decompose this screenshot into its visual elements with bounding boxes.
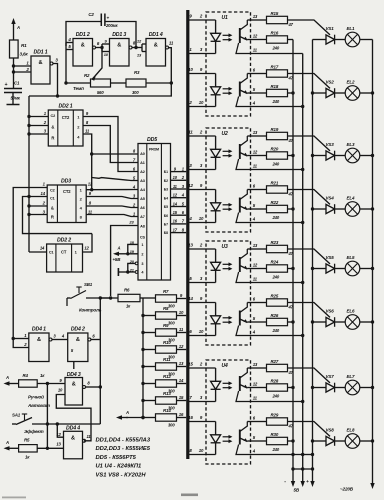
svg-text:R21: R21 [271, 180, 279, 185]
wire lamp to 220V rail channel 7 [360, 387, 373, 389]
svg-text:12: 12 [179, 344, 184, 349]
wire vertical DD4 outputs bus [99, 298, 101, 424]
svg-text:R30: R30 [271, 432, 279, 437]
svg-text:R9: R9 [163, 323, 169, 328]
lamp EL7 [345, 380, 360, 395]
wire DD1.3 out to DD1.4 inputs [132, 47, 142, 49]
wire DD4.3 out [86, 386, 101, 388]
wire anode bus to thyristor channel 5 [313, 268, 327, 270]
svg-text:EL4: EL4 [347, 196, 355, 201]
wire pin 4 to common bus channel 2 [251, 106, 303, 108]
svg-text:DD4 3: DD4 3 [67, 372, 81, 378]
wire R7 to bus tap 9 [177, 298, 187, 300]
wire pin to gate resistor channel 5 [251, 248, 267, 250]
thyristor VS7 [326, 383, 335, 392]
resistor R4 1k with point A arrow [7, 383, 11, 385]
svg-text:VS5: VS5 [326, 255, 335, 260]
svg-text:C2: C2 [50, 189, 55, 193]
svg-text:12: 12 [253, 263, 258, 268]
svg-text:C2: C2 [88, 12, 94, 17]
wire 240 to minus bus channel 1 [288, 39, 294, 41]
phototransistor channel 4 [239, 198, 241, 213]
wire DD3 pin3 [29, 214, 47, 216]
wire pin 11 to common bus channel 1 [251, 53, 303, 55]
gate DD4.2 [68, 333, 88, 362]
wire bus to LED anode channel 7 [189, 367, 216, 369]
resistor R29 47 channel 8 [267, 418, 288, 425]
svg-text:U4: U4 [222, 363, 228, 369]
svg-text:Эффект: Эффект [24, 428, 44, 434]
svg-text:VS1: VS1 [326, 26, 335, 31]
wire anode bus to thyristor channel 7 [313, 387, 327, 389]
wire pin to gate resistor channel 3 [251, 135, 267, 137]
svg-text:A: A [16, 25, 20, 30]
light arrows channel 4 [223, 204, 231, 206]
wire bus to LED anode channel 8 [189, 421, 216, 423]
supply arrow minus [292, 469, 294, 484]
wire pin 11 to common bus channel 3 [251, 169, 303, 171]
wire 240 to minus bus channel 4 [288, 208, 294, 210]
potentiometer R2 560 Temp [91, 79, 111, 87]
lamp EL8 [345, 434, 360, 449]
wire pin 4 to common bus channel 6 [251, 335, 303, 337]
svg-text:VS6: VS6 [326, 309, 335, 314]
svg-text:U1: U1 [222, 15, 228, 21]
optocoupler U3 dashed package [206, 241, 251, 345]
wire SB1 to R6 [86, 297, 118, 299]
svg-text:A3: A3 [140, 179, 145, 183]
resistor R1 3,6k [10, 40, 19, 58]
LED optocoupler input channel 8 [215, 422, 217, 435]
svg-text:R23: R23 [271, 240, 279, 245]
resistor R21 47 channel 4 [267, 186, 288, 193]
resistor R23 47 channel 5 [267, 245, 288, 252]
svg-text:R6: R6 [124, 288, 130, 293]
thyristor VS3 [326, 151, 335, 160]
wire rail counters common vertical [28, 96, 30, 252]
wire bus to LED anode channel 6 [189, 302, 216, 304]
phototransistor channel 1 [239, 28, 241, 43]
wire R10 to bus tap 12 [177, 349, 187, 351]
svg-text:DD2,DD3 - К555ИЕ5: DD2,DD3 - К555ИЕ5 [96, 446, 151, 452]
svg-text:+: + [306, 480, 309, 485]
resistor R25 47 channel 6 [267, 299, 288, 306]
svg-text:Б3: Б3 [164, 188, 168, 192]
svg-text:3,6к: 3,6к [20, 52, 29, 57]
phototransistor channel 7 [239, 376, 241, 391]
wire pin 11 to common bus channel 5 [251, 282, 303, 284]
wire DD3 out 12 to A4 [86, 189, 138, 191]
svg-text:10: 10 [199, 448, 204, 453]
wire bus to LED anode channel 4 [189, 189, 216, 191]
wire lamp to 220V rail channel 5 [360, 268, 373, 270]
svg-text:13: 13 [179, 361, 184, 366]
svg-text:200мк: 200мк [105, 23, 118, 28]
light arrows channel 5 [223, 263, 231, 265]
wire mode select vertical [46, 384, 48, 449]
LED optocoupler input channel 3 [215, 136, 217, 149]
wire R9 to bus tap 11 [177, 332, 187, 334]
gate DD1.3 [110, 39, 130, 67]
svg-text:R20: R20 [271, 146, 279, 151]
lamp EL4 [345, 202, 360, 217]
wire R3 right to DD1.4 node [146, 82, 171, 84]
wire C2 right to DD1.4 input node [105, 22, 136, 48]
svg-text:240: 240 [272, 447, 280, 452]
wire DD3 out 8 to A6 [86, 206, 138, 208]
lamp supply rail 220V [372, 40, 374, 472]
light arrows channel 6 [223, 317, 231, 319]
svg-text:R10: R10 [163, 340, 171, 345]
scan artifact bottom left [2, 497, 26, 499]
node dot pin2 [12, 70, 15, 73]
svg-text:13: 13 [253, 14, 258, 19]
svg-text:3: 3 [141, 262, 143, 266]
svg-text:R11: R11 [163, 357, 171, 362]
wire thyristor to lamp channel 2 [335, 92, 346, 94]
wire LED cathode to bus channel 3 [189, 169, 216, 171]
wire DD2.1 out 11 to A0 [83, 134, 92, 190]
svg-text:2: 2 [141, 252, 143, 256]
node A supply arrow top-left [13, 21, 15, 40]
svg-text:U1 U4 - К249КП1: U1 U4 - К249КП1 [96, 464, 142, 470]
svg-text:A1: A1 [140, 161, 145, 165]
svg-text:R5: R5 [24, 438, 30, 443]
svg-text:VS3: VS3 [326, 142, 335, 147]
light arrows channel 8 [223, 436, 231, 438]
svg-text:DD1 1: DD1 1 [34, 50, 48, 56]
LED optocoupler input channel 1 [215, 20, 217, 33]
wire lamp to 220V rail channel 3 [360, 155, 373, 157]
wire R4 to DD4.3 pin9 [37, 383, 65, 385]
wire wiper branch to R2 potentiometer [92, 48, 102, 80]
svg-text:&: & [37, 337, 41, 343]
svg-text:Автомат: Автомат [27, 403, 50, 408]
svg-text:&: & [71, 436, 75, 442]
svg-text:SA1: SA1 [12, 413, 21, 418]
svg-text:300: 300 [132, 90, 139, 95]
svg-text:EL7: EL7 [347, 374, 355, 379]
wire lamp to 220V rail channel 4 [360, 208, 373, 210]
wire LED cathode to bus channel 5 [189, 282, 216, 284]
svg-text:15: 15 [179, 395, 184, 400]
svg-text:240: 240 [272, 394, 280, 399]
lamp EL1 [345, 32, 360, 47]
wire thyristor to lamp channel 7 [335, 387, 346, 389]
wire DD2.1 out 8 to A1 [83, 126, 138, 163]
wire DD2.2 pin14 from rail [29, 251, 47, 253]
svg-text:&: & [154, 43, 158, 49]
wire anode bus to thyristor channel 3 [313, 155, 327, 157]
svg-text:10: 10 [199, 329, 204, 334]
svg-text:A2: A2 [140, 170, 145, 174]
thyristor VS1 [326, 35, 335, 44]
wire gate drive channel 4 [288, 190, 331, 205]
svg-text:VS1 VS8 - КУ202Н: VS1 VS8 - КУ202Н [96, 472, 147, 478]
wire DD1.1 output to clock node [53, 64, 58, 97]
supply arrow plus [312, 469, 314, 484]
wire DD1.2 out to DD1.3 inputs [96, 47, 103, 49]
wire lamp to 220V rail channel 6 [360, 321, 373, 323]
wire R8 to bus tap 10 [177, 315, 187, 317]
svg-text:R1: R1 [21, 43, 27, 48]
svg-text:R13: R13 [163, 391, 171, 396]
resistor R19 47 channel 3 [267, 132, 288, 139]
wire thyristor to lamp channel 4 [335, 208, 346, 210]
wire DD4.4 pin12 from latch line [57, 424, 63, 437]
LED optocoupler input channel 7 [215, 368, 217, 381]
svg-text:5В: 5В [294, 488, 300, 493]
svg-text:EL5: EL5 [347, 255, 355, 260]
resistor R14 300 [143, 417, 156, 419]
wire R2 to R3 [111, 82, 127, 84]
resistor R9 300 [143, 332, 156, 334]
svg-text:300: 300 [168, 320, 175, 325]
wire pin 4 to common bus channel 8 [251, 454, 303, 456]
svg-text:R29: R29 [271, 412, 279, 417]
svg-text:R19: R19 [271, 127, 279, 132]
svg-text:EL3: EL3 [347, 142, 355, 147]
wire 240 to minus bus channel 3 [288, 155, 294, 157]
wire DD2.1 pin3 to rail [29, 133, 48, 135]
svg-text:R7: R7 [163, 289, 169, 294]
wire CS pins 18 19 tie to +5V point A [128, 244, 138, 253]
svg-text:R2: R2 [84, 73, 90, 78]
light arrows channel 2 [223, 88, 231, 90]
svg-text:Б7: Б7 [164, 223, 168, 227]
resistor R28 240 channel 7 [267, 384, 288, 391]
ladder common rail [142, 298, 144, 418]
wire gate drive channel 6 [288, 303, 331, 318]
resistor R20 240 channel 3 [267, 152, 288, 159]
lamp EL5 [345, 261, 360, 276]
wire left branch down to R2 [65, 50, 67, 84]
wire DD3 pin14 C1 from loop [23, 197, 93, 234]
wire LED cathode to bus channel 2 [189, 106, 216, 108]
wire LED cathode to bus channel 6 [189, 335, 216, 337]
svg-text:240: 240 [272, 99, 280, 104]
wire anode bus to thyristor channel 4 [313, 208, 327, 210]
wire DD3 out 9 to A5 [86, 197, 138, 199]
wire R2 left [66, 82, 91, 84]
svg-text:CT2: CT2 [63, 189, 71, 194]
wire bus to LED anode channel 5 [189, 248, 216, 250]
svg-text:CS: CS [140, 236, 146, 240]
scan artifact bottom center [181, 494, 198, 497]
phototransistor channel 6 [239, 311, 241, 326]
svg-text:U2: U2 [222, 131, 228, 137]
svg-text:EL8: EL8 [347, 428, 355, 433]
wire 240 to minus bus channel 6 [288, 321, 294, 323]
resistor R6 1k [118, 294, 140, 301]
wire pin 11 to common bus channel 7 [251, 401, 303, 403]
svg-text:C1: C1 [49, 251, 54, 255]
bus common wire vertical [302, 54, 304, 470]
wire pin to gate resistor channel 2 [251, 73, 267, 75]
svg-text:Б2: Б2 [164, 179, 168, 183]
svg-text:11: 11 [169, 41, 174, 46]
wire lamp to 220V rail channel 1 [360, 39, 373, 41]
svg-text:SB1: SB1 [84, 282, 93, 287]
svg-text:47: 47 [288, 22, 294, 27]
thyristor VS8 [326, 436, 335, 445]
node dot DD4.1 pin1 branch [12, 337, 15, 340]
svg-text:R24: R24 [271, 259, 279, 264]
counter DD2.2 CT [47, 244, 83, 272]
svg-text:300: 300 [168, 303, 175, 308]
svg-text:R14: R14 [163, 408, 171, 413]
wire DD2.1 out 9 to A2 [83, 117, 138, 172]
light arrows channel 7 [223, 382, 231, 384]
wire pin to gate resistor channel 8 [251, 421, 267, 423]
wire lamp to 220V rail channel 2 [360, 92, 373, 94]
wire thyristor to lamp channel 8 [335, 440, 346, 442]
wire anode bus to thyristor channel 2 [313, 92, 327, 94]
resistor R18 240 channel 2 [267, 89, 288, 96]
PROM CS pins 20 21 with inversion bubbles to common [135, 262, 138, 265]
LED optocoupler input channel 6 [215, 303, 217, 316]
svg-text:+5В: +5В [113, 257, 122, 262]
svg-text:DD4 2: DD4 2 [71, 327, 85, 333]
svg-text:10: 10 [199, 216, 204, 221]
svg-text:A0: A0 [140, 152, 145, 156]
wire ladder bottom to point A [126, 417, 143, 419]
resistor R3 300 [126, 79, 146, 87]
wire bus to LED anode channel 2 [189, 73, 216, 75]
svg-text:240: 240 [272, 162, 280, 167]
wire LED cathode to bus channel 4 [189, 222, 216, 224]
svg-text:10: 10 [188, 67, 193, 72]
svg-text:A6: A6 [140, 206, 145, 210]
wire pin 4 to common bus channel 4 [251, 222, 303, 224]
optocoupler U2 dashed package [206, 128, 251, 232]
wire R1 to input node [13, 58, 15, 88]
wire DD1.4 output down to clock return [29, 48, 171, 96]
svg-text:DD1,DD4 - К555ЛА3: DD1,DD4 - К555ЛА3 [96, 438, 151, 444]
phototransistor channel 3 [239, 144, 241, 159]
wire to DD1.1 pin 1 [14, 65, 32, 67]
bus minus wire vertical [292, 40, 294, 470]
resistor R22 240 channel 4 [267, 205, 288, 212]
svg-text:PROM: PROM [149, 148, 159, 152]
LED optocoupler input channel 2 [215, 74, 217, 87]
svg-text:1: 1 [141, 243, 143, 247]
svg-text:CT: CT [61, 250, 67, 255]
svg-text:VS4: VS4 [326, 196, 335, 201]
svg-text:R18: R18 [271, 84, 279, 89]
wire 240 to minus bus channel 5 [288, 268, 294, 270]
thyristor VS5 [326, 264, 335, 273]
svg-text:Б6: Б6 [164, 214, 168, 218]
wire DD2.1 pin2 to rail [29, 125, 48, 127]
wire A3 crossing link [92, 178, 138, 181]
wire pin to gate resistor channel 4 [251, 189, 267, 191]
svg-text:EL1: EL1 [347, 26, 355, 31]
lamp EL2 [345, 86, 360, 101]
svg-text:DD2 1: DD2 1 [59, 104, 73, 110]
svg-text:Б5: Б5 [164, 205, 168, 209]
svg-text:C1: C1 [14, 81, 20, 86]
wire R14 to bus tap 16 [177, 417, 187, 419]
svg-text:&: & [81, 43, 85, 49]
svg-text:A5: A5 [140, 197, 145, 201]
resistor R27 47 channel 7 [267, 364, 288, 371]
svg-text:&: & [39, 60, 43, 66]
resistor R13 300 [143, 400, 156, 402]
wire DD4.1 out to DD4.2 pin4 [52, 339, 68, 341]
wire gate drive channel 7 [288, 368, 331, 383]
svg-text:A: A [5, 375, 9, 380]
wire R11 to bus tap 13 [177, 366, 187, 368]
svg-text:10: 10 [179, 310, 184, 315]
svg-text:12: 12 [253, 150, 258, 155]
svg-text:&: & [51, 206, 54, 211]
svg-text:A7: A7 [140, 215, 145, 219]
svg-text:14: 14 [188, 296, 193, 301]
svg-text:13: 13 [253, 243, 258, 248]
resistor R15 47 channel 1 [267, 16, 288, 23]
svg-text:DD3: DD3 [61, 179, 71, 185]
wire DD3 pin1 clock from left rail [13, 188, 47, 348]
svg-text:VS8: VS8 [326, 428, 335, 433]
wire bottom tie of supply buses [293, 468, 313, 470]
resistor R26 240 channel 6 [267, 318, 288, 325]
resistor R12 300 [143, 383, 156, 385]
svg-text:240: 240 [272, 275, 280, 280]
svg-text:DD4 4: DD4 4 [66, 426, 80, 432]
wire gate drive channel 3 [288, 136, 331, 151]
svg-text:16: 16 [179, 412, 184, 417]
svg-text:A: A [5, 440, 9, 445]
LED optocoupler input channel 5 [215, 249, 217, 262]
light arrows channel 1 [223, 34, 231, 36]
wire DD4.2 out to vertical [91, 339, 100, 341]
wire LED cathode to bus channel 8 [189, 454, 216, 456]
wire gate drive channel 8 [288, 422, 331, 437]
svg-text:12: 12 [188, 183, 193, 188]
wire 240 to minus bus channel 7 [288, 387, 294, 389]
gate DD1.1 [31, 56, 50, 84]
svg-text:Б8: Б8 [164, 231, 168, 235]
wire gate drive channel 1 [288, 20, 331, 35]
svg-text:CT2: CT2 [62, 115, 70, 120]
svg-text:R3: R3 [134, 70, 140, 75]
svg-text:Б1: Б1 [164, 170, 168, 174]
svg-text:Контроль: Контроль [79, 308, 102, 313]
counter DD2.1 CT2 [48, 110, 83, 146]
svg-text:VS7: VS7 [326, 374, 335, 379]
svg-text:C1: C1 [50, 197, 55, 201]
resistor R7 300 [156, 295, 177, 302]
thyristor VS6 [326, 317, 335, 326]
lamp EL6 [345, 315, 360, 330]
svg-text:&: & [117, 43, 121, 49]
wire thyristor to lamp channel 5 [335, 268, 346, 270]
resistor R5 1k with point A arrow [7, 447, 11, 449]
svg-text:16: 16 [188, 415, 193, 420]
svg-text:R25: R25 [271, 293, 279, 298]
wire anode bus to thyristor channel 8 [313, 440, 327, 442]
optocoupler U4 dashed package [206, 360, 251, 464]
svg-text:Б4: Б4 [164, 196, 168, 200]
wire DD3 pin2 [29, 205, 47, 207]
PROM DD5 K556RT5 [138, 144, 171, 281]
wire R5 to DD4.4 pin13 [37, 447, 63, 449]
svg-text:12: 12 [253, 382, 258, 387]
svg-text:R15: R15 [271, 11, 279, 16]
light arrows channel 3 [223, 150, 231, 152]
node dot pin1 [12, 64, 15, 67]
